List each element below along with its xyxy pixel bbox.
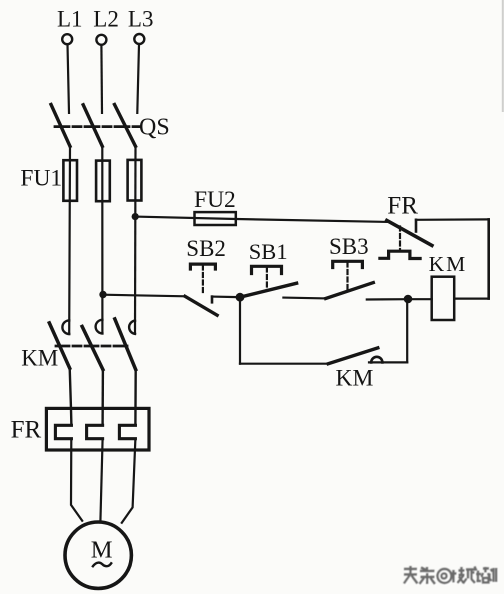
motor M circle (65, 522, 131, 588)
button SB1 cap (252, 266, 282, 273)
wire phase2 QS to KM contact (101, 146, 103, 333)
button SB3 NO blade (326, 283, 374, 299)
switch QS pole 2 blade (83, 105, 102, 147)
node A junction (236, 293, 245, 302)
svg-text:KM: KM (336, 366, 374, 392)
button SB3 dashed stem (346, 263, 348, 290)
svg-text:FR: FR (387, 192, 418, 219)
relay FR heater element 2 (87, 425, 103, 438)
relay FR NC contact blade (387, 220, 432, 245)
relay FR dashed link (399, 227, 401, 250)
wire SB3 to node B and coil (367, 298, 432, 300)
contactor KM main contact arc pole2 (96, 320, 103, 334)
contactor KM main contact arc pole3 (129, 321, 135, 334)
wire control supply through FU2 (135, 217, 387, 222)
relay FR thermal element symbol (380, 251, 420, 258)
button SB1 dashed stem (266, 268, 268, 291)
contact KM auxiliary arc (371, 357, 382, 363)
node L2 terminal (96, 35, 106, 45)
wire node A down (239, 297, 241, 364)
relay FR heater element 1 (55, 425, 71, 438)
wire L1 to QS (68, 45, 70, 113)
motor tilde (93, 563, 111, 567)
button SB3 cap (333, 261, 363, 267)
wire heater1 to motor (71, 439, 82, 521)
node L1 terminal (62, 34, 72, 44)
wire right rail down (487, 219, 490, 298)
wire FR to right rail (416, 218, 489, 221)
button SB1 NO blade (239, 283, 297, 297)
wire pole3 to FR heater (134, 370, 137, 426)
svg-text:KM: KM (21, 345, 58, 370)
switch QS pole 1 blade (51, 105, 70, 147)
svg-text:SB1: SB1 (249, 239, 288, 264)
button SB2 dashed stem (202, 266, 204, 294)
svg-text:SB2: SB2 (186, 236, 226, 261)
contact KM auxiliary NO blade (328, 348, 378, 364)
svg-text:L1: L1 (57, 6, 83, 31)
svg-text:FU1: FU1 (20, 166, 62, 192)
node L3 terminal (134, 34, 144, 44)
wire phase2 tap to SB2 (103, 295, 185, 297)
wire heater2 to motor (100, 439, 102, 522)
button SB2 NC blade (185, 296, 217, 315)
wire pole2 to FR heater (101, 370, 104, 426)
wire phase3 QS to KM contact (134, 146, 137, 333)
wire SB2 to node A (212, 296, 237, 299)
svg-text:L2: L2 (93, 6, 119, 31)
wire phase1 QS to KM contact (68, 146, 71, 334)
node B junction (404, 295, 413, 304)
switch QS linkage dashed (55, 125, 140, 128)
node junction phase2 control tap (99, 291, 106, 298)
relay FR NC contact fixed tick (415, 220, 418, 232)
svg-text:QS: QS (139, 114, 170, 140)
fuse FU2 (195, 212, 236, 225)
node junction phase3 control tap (132, 213, 139, 220)
contactor KM main blade pole1 (49, 323, 69, 368)
svg-text:FR: FR (11, 417, 42, 444)
wire SB1 to SB3 (283, 297, 325, 300)
relay FR heater element 3 (119, 425, 135, 438)
fuse FU1 pole 2 (96, 161, 110, 202)
svg-text:M: M (91, 537, 113, 564)
wire L2 to QS (100, 45, 103, 113)
watermark (404, 566, 498, 585)
wire pole1 to FR heater (70, 368, 72, 425)
fuse FU1 pole 3 (128, 160, 142, 201)
wire under aux contact arc (369, 361, 407, 363)
fuse FU1 pole 1 (63, 160, 77, 201)
relay FR heater box (46, 408, 149, 450)
contactor KM main contact arc pole1 (62, 320, 69, 334)
scan artifact edge line (502, 0, 504, 112)
svg-text:FU2: FU2 (194, 187, 236, 213)
svg-text:SB3: SB3 (329, 234, 369, 259)
contactor KM main blade pole3 (115, 319, 136, 370)
contactor KM main blade pole2 (82, 326, 103, 369)
wire right rail to coil (454, 298, 489, 300)
wire aux branch up to node B (406, 299, 408, 362)
switch QS pole 3 blade (115, 105, 136, 147)
svg-text:L3: L3 (128, 6, 154, 31)
wire aux branch bottom (240, 363, 328, 365)
button SB2 cap (190, 264, 215, 269)
wire L3 to QS (137, 44, 139, 113)
button SB2 fixed tick (211, 297, 214, 303)
coil KM (432, 277, 455, 320)
contactor KM linkage dashed (56, 345, 131, 348)
wire heater3 to motor (122, 439, 136, 523)
svg-text:KM: KM (429, 252, 468, 276)
